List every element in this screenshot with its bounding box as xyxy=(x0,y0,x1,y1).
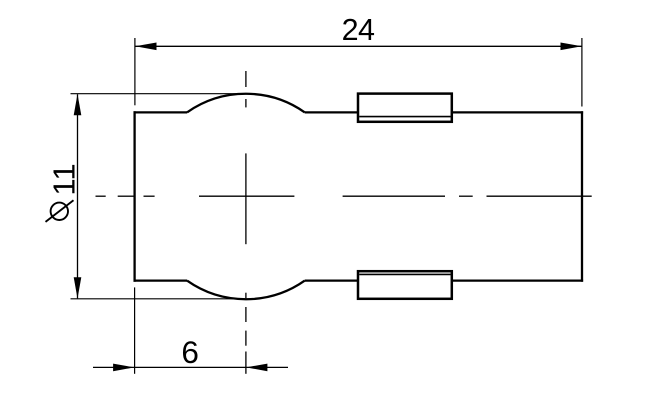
dimension 24: left arrowhead xyxy=(135,43,156,51)
bottom edge right segment xyxy=(452,279,583,281)
dimension 24: right arrowhead xyxy=(561,43,582,51)
top edge middle segment xyxy=(305,111,358,113)
left edge xyxy=(133,111,135,281)
dimension phi11: bottom arrowhead xyxy=(74,277,82,298)
top edge right segment xyxy=(452,111,583,113)
dimension phi11: top arrowhead xyxy=(74,94,82,115)
top edge left segment xyxy=(134,111,188,113)
ball bottom arc xyxy=(187,281,305,300)
right edge xyxy=(581,111,583,281)
svg-text:6: 6 xyxy=(181,334,199,370)
top contact band rectangle xyxy=(358,94,452,122)
dimension 24: extension line right xyxy=(581,38,583,107)
part body outline xyxy=(134,94,584,299)
dimension phi11: extension line top xyxy=(71,93,245,95)
dimension 6: right arrowhead xyxy=(246,364,267,372)
dimension 6: dimension line xyxy=(93,366,288,368)
ball top arc xyxy=(187,94,305,113)
dimension 24: dimension line xyxy=(135,45,582,47)
top band inner line xyxy=(359,116,450,118)
dimension 6: extension line left xyxy=(134,287,136,373)
dimension 24: extension line left xyxy=(134,38,136,105)
svg-text:24: 24 xyxy=(342,13,375,47)
horizontal centerline xyxy=(96,195,592,197)
bottom edge left segment xyxy=(134,279,188,281)
dimension phi11: diameter symbol xyxy=(46,200,74,222)
dimension 6: left arrowhead xyxy=(113,364,134,372)
dimension phi11: dimension line xyxy=(77,94,79,298)
bottom edge middle segment xyxy=(305,279,358,281)
svg-text:11: 11 xyxy=(47,163,82,195)
bottom band inner line xyxy=(359,273,450,275)
dimension phi11: extension line bottom xyxy=(71,298,247,300)
bottom contact band rectangle xyxy=(358,271,452,299)
vertical centerline xyxy=(245,71,247,374)
